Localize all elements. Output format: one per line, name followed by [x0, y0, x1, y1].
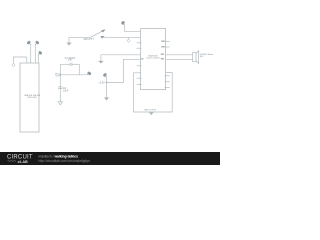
- svg-text:8W: 8W: [200, 56, 204, 58]
- amplifier IC1 body: [141, 29, 166, 90]
- SP1 label text: [200, 54, 213, 58]
- IC1 right pins: [165, 41, 170, 87]
- U1 pin 2 stub: [30, 44, 32, 63]
- wire: [101, 54, 141, 56]
- speaker SP1: [193, 51, 199, 64]
- node flag F: [87, 71, 92, 76]
- svg-text:GND OUTPUT: GND OUTPUT: [144, 109, 157, 111]
- wire: [106, 83, 108, 98]
- capacitor C1 in mic box top: [60, 63, 70, 65]
- IC1 pin name smudges: [141, 41, 164, 60]
- arrow terminal G4: [104, 98, 108, 101]
- ground G1: [68, 37, 70, 43]
- junction: [59, 74, 61, 76]
- U1 label text: [24, 94, 41, 99]
- wire: [106, 77, 108, 82]
- node flag D: [121, 20, 126, 25]
- wire: [60, 74, 87, 76]
- capacitor C2 plates: [58, 86, 62, 88]
- svg-text:masitech / walking-talkies: masitech / walking-talkies: [39, 154, 79, 158]
- MIC1 label text: [55, 74, 61, 78]
- U1 pin 3 stub: [34, 44, 36, 63]
- switch SW1 upper contact flag: [102, 30, 105, 32]
- node flag E: [102, 72, 107, 77]
- svg-text:10uF: 10uF: [63, 89, 69, 92]
- wire: [103, 36, 141, 38]
- node flag C: [38, 50, 43, 55]
- svg-text:Dual lo amplifier: Dual lo amplifier: [146, 57, 160, 60]
- C1 label text: [65, 57, 76, 61]
- U1 pin 4 stub: [37, 54, 39, 63]
- wire: [106, 59, 140, 82]
- svg-text:+1.5V: +1.5V: [98, 82, 105, 85]
- walkie-talkie module U1 body: [20, 63, 39, 132]
- svg-text:SW1 PTT: SW1 PTT: [84, 38, 95, 41]
- svg-text:10n: 10n: [68, 59, 73, 62]
- wire: [166, 58, 193, 60]
- ground G2: [100, 55, 102, 61]
- node flag A: [26, 40, 31, 45]
- wire: [69, 36, 91, 38]
- junction: [106, 82, 108, 84]
- switch SW1 lower contact flag: [101, 36, 104, 38]
- wire: [78, 64, 80, 75]
- wire: [14, 57, 27, 63]
- microphone MIC1 vertical wire: [59, 64, 61, 102]
- svg-text:MODULE: MODULE: [28, 97, 38, 99]
- svg-text:9mV: 9mV: [55, 76, 60, 78]
- wire: [125, 25, 141, 31]
- svg-text:LAB: LAB: [20, 160, 28, 164]
- terminal T2 diamond: [128, 37, 130, 39]
- switch SW1 blade: [91, 31, 102, 37]
- C2 label text: [63, 87, 69, 92]
- terminal G5 hollow: [58, 102, 62, 105]
- U1 pin 1 stub: [26, 57, 28, 63]
- footer bar: [0, 152, 220, 165]
- svg-text:http://circuitlab.com/c/nuhakz: http://circuitlab.com/c/nuhakzdg6yn: [39, 159, 91, 163]
- IC1 left pins: [137, 43, 142, 85]
- wire: [134, 73, 173, 112]
- node flag B: [35, 40, 40, 45]
- ground G3: [149, 112, 154, 115]
- CircuitLab logo: [7, 155, 33, 165]
- wire: [166, 54, 193, 56]
- terminal T1 diamond: [12, 63, 15, 66]
- IC1 label text: [146, 54, 160, 59]
